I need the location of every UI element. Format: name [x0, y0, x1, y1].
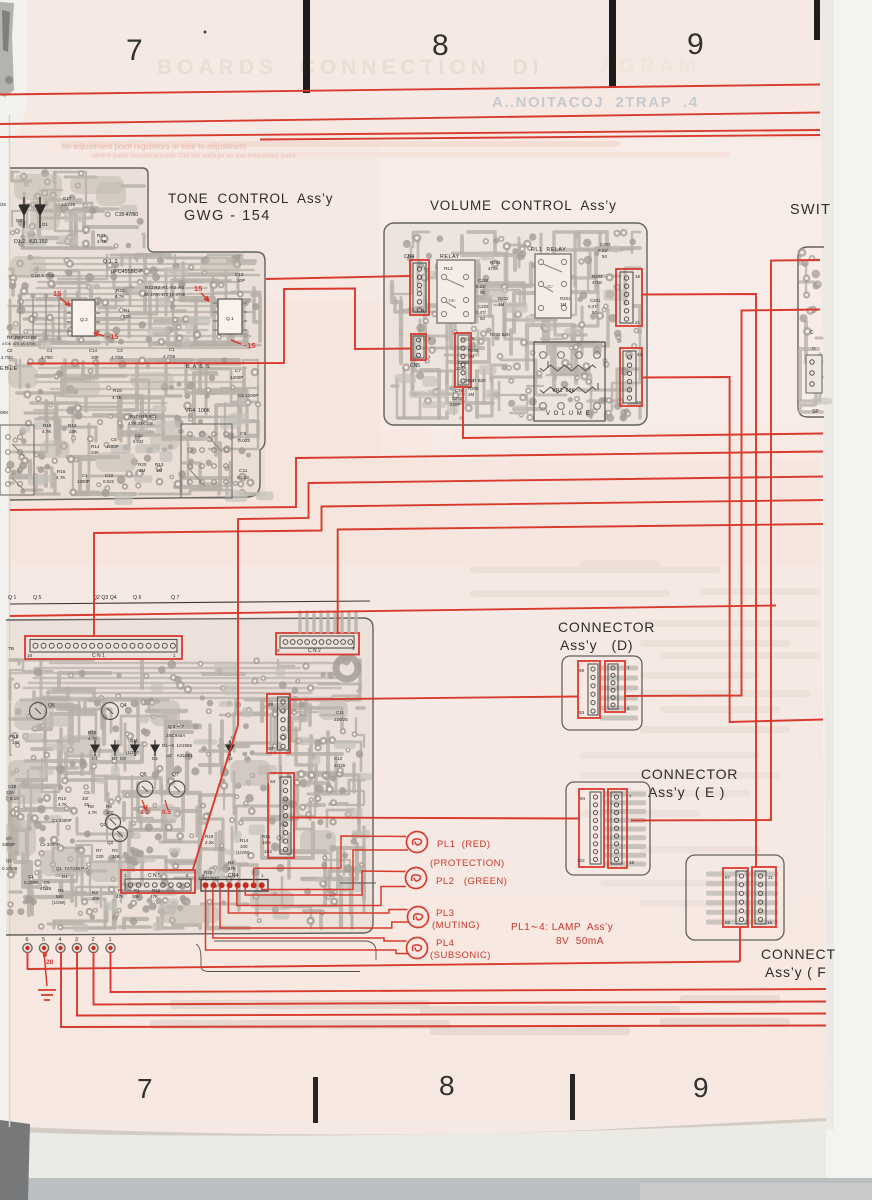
svg-text:680: 680 [56, 894, 64, 899]
svg-text:R14: R14 [91, 444, 100, 449]
svg-text:C: C [810, 330, 814, 336]
svg-text:D1,2. KZL150: D1,2. KZL150 [14, 239, 48, 245]
faint ghost paragraph lines [470, 566, 720, 573]
volume control board outline [384, 223, 647, 425]
svg-text:0.47/: 0.47/ [588, 304, 599, 309]
svg-text:22/25: 22/25 [334, 763, 346, 768]
lower board interior tint [6, 618, 373, 935]
svg-text:18: 18 [27, 653, 33, 658]
svg-text:CN4: CN4 [404, 254, 414, 260]
red ground symbol [44, 952, 47, 986]
svg-text:R33 R3 R1 R3 R5: R33 R3 R1 R3 R5 [145, 285, 185, 290]
PL4 wire a (CN4 pin2) [213, 887, 407, 941]
wire F-net: volume 16-21 to connector F right strip [641, 294, 756, 867]
svg-text:R18: R18 [43, 423, 52, 428]
svg-text:R206: R206 [468, 348, 479, 353]
svg-text:33/: 33/ [82, 796, 89, 801]
svg-text:1200P: 1200P [230, 375, 243, 380]
svg-text:(1/2W): (1/2W) [236, 850, 250, 855]
svg-text:C5: C5 [84, 790, 90, 795]
svg-text:0.22/: 0.22/ [476, 284, 487, 289]
svg-text:C1: C1 [169, 347, 175, 352]
svg-text:4.7K: 4.7K [88, 810, 97, 815]
svg-text:BOARDS CONNECTION DI: BOARDS CONNECTION DI [157, 56, 544, 79]
svg-text:21: 21 [768, 875, 774, 880]
volume board traces [504, 305, 524, 336]
bottom line from pad1 [111, 952, 827, 992]
svg-text:15: 15 [194, 284, 202, 293]
connector F left strip 87-82 [723, 868, 748, 927]
connector F rung bars right [744, 872, 778, 877]
switch board connector [806, 355, 822, 393]
svg-text:(MUTING): (MUTING) [432, 920, 480, 931]
svg-text:16: 16 [767, 920, 773, 925]
svg-text:C206: C206 [458, 360, 469, 365]
top red line 3 [0, 130, 820, 137]
svg-text:D1∼6 1S1555: D1∼6 1S1555 [162, 743, 193, 748]
svg-text:1M: 1M [139, 468, 146, 473]
svg-text:C11: C11 [239, 468, 248, 474]
svg-text:VOLUME CONTROL Ass’y: VOLUME CONTROL Ass’y [430, 198, 617, 213]
connector D rung bars [600, 666, 638, 671]
top tick mark center [609, 0, 616, 87]
diode row D4-D2 [91, 740, 99, 756]
svg-text:4: 4 [59, 937, 62, 943]
lamp PL4 [407, 938, 428, 959]
svg-text:C14: C14 [89, 348, 98, 353]
svg-text:88: 88 [579, 668, 585, 673]
connector D left strip 88-93 [578, 661, 600, 718]
connector strip 88-93 [267, 694, 290, 753]
svg-text:C202: C202 [478, 304, 489, 309]
svg-text:Q3: Q3 [100, 822, 107, 827]
svg-text:R20: R20 [138, 462, 147, 467]
svg-text:C204: C204 [478, 278, 489, 283]
svg-text:100/25: 100/25 [61, 202, 75, 207]
connector D board outline [562, 656, 642, 730]
tone board traces upper [53, 172, 56, 183]
svg-text:PL2 (GREEN): PL2 (GREEN) [436, 876, 507, 887]
svg-text:R15: R15 [262, 834, 271, 839]
wire 94-102 strip to connector E [290, 818, 579, 819]
svg-text:R15: R15 [113, 388, 122, 394]
svg-text:470K 470 1K 470K: 470K 470 1K 470K [2, 341, 36, 346]
wire B: CN5 diagonal up to mid bus [193, 477, 823, 870]
svg-text:0.022: 0.022 [103, 479, 115, 484]
svg-text:4.7K: 4.7K [56, 475, 66, 480]
gray finger traces above CN2 [298, 612, 301, 632]
svg-text:R4: R4 [228, 860, 234, 865]
connector F right strip 21-16 [752, 867, 776, 927]
svg-text:RELAY: RELAY [440, 254, 460, 260]
left paper edge shadow [9, 115, 11, 1127]
svg-text:3: 3 [75, 937, 78, 943]
svg-text:V O L U M E: V O L U M E [546, 411, 590, 417]
PL1 wire a (CN4 pin7 up) [254, 836, 407, 884]
svg-text:4.7/50: 4.7/50 [41, 355, 53, 360]
svg-text:4.7K: 4.7K [58, 802, 67, 807]
svg-text:7: 7 [137, 1073, 153, 1104]
svg-text:D7 D9: D7 D9 [112, 756, 126, 761]
svg-text:(1/2W): (1/2W) [52, 900, 66, 905]
top red line 4 (right half) [260, 135, 820, 140]
diode D2 [19, 197, 29, 228]
svg-text:R19: R19 [205, 834, 214, 839]
svg-text:12K: 12K [112, 854, 120, 859]
svg-text:D1: D1 [42, 222, 48, 227]
svg-text:47K: 47K [228, 866, 236, 871]
svg-text:Cx 3300P: Cx 3300P [40, 842, 60, 847]
svg-text:CONNECT: CONNECT [761, 946, 836, 962]
svg-text:VR4 100K: VR4 100K [185, 408, 211, 414]
svg-text:R202: R202 [498, 296, 509, 301]
svg-text:GWG - 154: GWG - 154 [184, 208, 271, 224]
svg-text:∕DE∕: ∕DE∕ [447, 298, 457, 303]
faint red bleed text rows under top lines [60, 141, 620, 147]
svg-text:220P: 220P [456, 366, 466, 371]
large gray blobs lower board [14, 700, 54, 730]
svg-text:9: 9 [693, 1072, 709, 1103]
svg-text:0.022: 0.022 [133, 439, 144, 444]
svg-text:10P: 10P [237, 278, 245, 283]
svg-text:C1: C1 [28, 874, 34, 879]
scanner background left edge [0, 0, 27, 1200]
svg-text:47/25: 47/25 [40, 886, 52, 891]
svg-text:1: 1 [627, 665, 630, 670]
svg-text:R201: R201 [560, 296, 571, 301]
svg-text:Q4: Q4 [120, 703, 127, 709]
svg-text:9: 9 [687, 28, 704, 61]
svg-text:2: 2 [92, 937, 95, 943]
svg-text:R12: R12 [68, 423, 77, 428]
svg-text:94: 94 [580, 796, 586, 801]
svg-text:RL1 RELAY: RL1 RELAY [531, 247, 566, 253]
svg-text:93: 93 [579, 710, 585, 715]
svg-text:470K: 470K [592, 280, 602, 285]
tone board interior tint [10, 168, 265, 500]
svg-text:220: 220 [123, 314, 131, 319]
svg-text:C4: C4 [82, 473, 88, 478]
svg-text:R3: R3 [112, 848, 118, 853]
svg-text:100: 100 [130, 744, 138, 749]
svg-text:A..NOITACOJ 2TRAP .4: A..NOITACOJ 2TRAP .4 [492, 94, 699, 111]
svg-text:Q 1: Q 1 [8, 595, 16, 601]
svg-text:R11: R11 [130, 738, 138, 743]
svg-text:102: 102 [264, 849, 272, 855]
PL2 wire b (CN4 pin5) [237, 887, 406, 906]
svg-text:100: 100 [240, 844, 248, 849]
svg-text:1: 1 [109, 937, 112, 943]
svg-text:4.7/50: 4.7/50 [163, 354, 176, 359]
svg-text:Ass’y ( F: Ass’y ( F [765, 964, 827, 980]
wire tone board to volume CN4 [266, 276, 410, 279]
svg-text:(PROTECTION): (PROTECTION) [430, 858, 505, 869]
tone board horizontal bus traces [28, 257, 243, 259]
svg-text:220/: 220/ [6, 790, 16, 795]
svg-text:220P: 220P [450, 402, 460, 407]
svg-text:4.7K: 4.7K [115, 294, 125, 299]
volume board interior tint [384, 223, 647, 425]
svg-text:C201: C201 [590, 298, 601, 303]
svg-text:28: 28 [46, 959, 54, 966]
svg-text:C7: C7 [235, 368, 241, 373]
svg-text:C10: C10 [8, 784, 17, 789]
tone board traces lower [111, 360, 137, 410]
lower board bus traces [50, 662, 343, 664]
svg-text:2.2K: 2.2K [205, 840, 214, 845]
svg-text:100: 100 [106, 810, 114, 815]
svg-text:R13: R13 [155, 462, 164, 467]
bottom line from pad2 [94, 952, 827, 1005]
svg-text:5: 5 [42, 937, 45, 943]
svg-text:SP: SP [812, 409, 819, 415]
svg-text:C205: C205 [452, 396, 463, 401]
svg-text:7: 7 [126, 34, 143, 67]
PL2 wire a (CN4 pin6) [245, 871, 405, 895]
svg-text:D1: D1 [62, 874, 68, 879]
svg-text:C9: C9 [240, 431, 246, 437]
wire V: volume CN6 down and right [463, 388, 823, 438]
svg-text:3300P: 3300P [2, 842, 15, 847]
svg-text:220: 220 [96, 854, 104, 859]
bottom tick mark left [313, 1077, 318, 1123]
svg-text:D4: D4 [92, 756, 98, 761]
svg-text:C16 4.7/50: C16 4.7/50 [31, 273, 55, 279]
CN1 connector [25, 636, 182, 659]
svg-text:21: 21 [635, 320, 641, 325]
svg-text:R22: R22 [204, 870, 213, 875]
relay RL2 [437, 260, 475, 323]
wire C2: right edge to CN2 [338, 524, 823, 634]
wire E-net: volume 43-48 right and down [643, 377, 823, 722]
svg-text:1M: 1M [156, 468, 163, 473]
svg-text:15: 15 [629, 860, 635, 865]
wire A: left edge to right edge via tone board bottom [10, 452, 823, 511]
svg-text:C12: C12 [334, 756, 343, 761]
transistors Q5 Q4 Q6 Q7 etc [30, 703, 47, 720]
svg-text:4.7K 24K 24K: 4.7K 24K 24K [128, 421, 154, 426]
via donut [336, 657, 358, 679]
svg-text:10%: 10% [262, 840, 271, 845]
CN4 connector (lower board) with red pins [201, 880, 268, 892]
svg-text:8: 8 [439, 1070, 455, 1101]
svg-text:50: 50 [480, 316, 485, 321]
svg-text:1: 1 [173, 653, 176, 658]
svg-text:/25: /25 [0, 202, 6, 207]
top tick mark left [303, 0, 310, 93]
svg-text:R21: R21 [97, 233, 106, 239]
svg-text:1M: 1M [468, 392, 474, 397]
svg-text:–15: –15 [243, 341, 256, 350]
svg-text:SWIT: SWIT [790, 202, 831, 218]
svg-text:PL3: PL3 [436, 908, 454, 919]
CN6 connector (volume) [455, 333, 471, 387]
CN5 connector (volume) [411, 334, 426, 360]
svg-text:C5 1200P: C5 1200P [238, 393, 258, 398]
scanner background right of paper edge [680, 0, 872, 1200]
svg-text:Qz: Qz [6, 858, 13, 863]
svg-text:6 10: 6 10 [10, 796, 19, 801]
svg-text:0.022: 0.022 [238, 438, 250, 444]
svg-text:R12: R12 [58, 796, 67, 801]
svg-text:3K 470K 470 1K 470K: 3K 470K 470 1K 470K [144, 292, 186, 297]
svg-text:C3: C3 [117, 348, 123, 353]
volume connector 43-48 [620, 348, 642, 406]
top tick mark right (paper edge) [814, 0, 820, 40]
svg-text:where parts should provide OM: where parts should provide OM list volta… [91, 153, 296, 160]
svg-text:Q.1: Q.1 [226, 316, 234, 322]
terminal pads 6..1 [23, 943, 32, 952]
svg-text:220/25: 220/25 [334, 717, 348, 722]
svg-text:R8: R8 [88, 804, 94, 809]
tone control board GWG-154 outline [10, 168, 265, 500]
svg-text:88: 88 [268, 702, 274, 708]
svg-text:470K: 470K [488, 266, 498, 271]
svg-text:C4: C4 [47, 348, 53, 353]
svg-text:Q1 TA7318 P-A: Q1 TA7318 P-A [56, 866, 89, 871]
svg-text:Q.2: Q.2 [80, 317, 88, 323]
lamp PL2 [406, 868, 427, 889]
svg-text:16: 16 [635, 274, 641, 279]
bass pot VR4 box [181, 424, 232, 498]
svg-text:R22: R22 [116, 288, 125, 293]
svg-text:Q 6: Q 6 [133, 595, 141, 601]
svg-text:10P: 10P [91, 355, 99, 360]
svg-text:50: 50 [480, 290, 485, 295]
svg-text:Q2: Q2 [107, 840, 114, 845]
svg-text:C N 1: C N 1 [92, 653, 105, 659]
bottom line from pad6 via PL4 to connector F [28, 952, 741, 969]
svg-text:2SC945A: 2SC945A [166, 733, 185, 738]
wire C: CN1 riser to right edge [94, 500, 823, 636]
svg-text:Q6: Q6 [140, 772, 147, 778]
top red line 1 [0, 85, 820, 95]
svg-text:R15: R15 [10, 734, 19, 739]
bottom line from pad3 [77, 952, 826, 1016]
svg-text:PL1 (RED): PL1 (RED) [437, 839, 491, 850]
svg-text:102: 102 [577, 858, 585, 863]
switch board outline [798, 247, 824, 417]
svg-text:7: 7 [629, 794, 632, 799]
svg-text:Ass’y ( E ): Ass’y ( E ) [648, 784, 725, 800]
svg-text:Q7: Q7 [172, 772, 179, 778]
svg-text:R2: R2 [92, 890, 98, 895]
svg-text:TONE CONTROL Ass’y: TONE CONTROL Ass’y [168, 191, 333, 206]
wire SW-net: switch board down to connector E [631, 260, 820, 821]
svg-text:1 3: 1 3 [140, 809, 149, 816]
svg-text:24K: 24K [69, 429, 78, 434]
svg-text:8: 8 [432, 29, 449, 62]
svg-text:O: O [812, 346, 816, 351]
svg-text:R16: R16 [57, 469, 66, 474]
svg-text:C6: C6 [111, 437, 117, 442]
svg-text:R17 R19 R11: R17 R19 R11 [130, 414, 157, 419]
svg-text:24K: 24K [91, 450, 100, 455]
svg-text:R207 B2K: R207 B2K [466, 378, 486, 383]
svg-text:D2: D2 [16, 218, 22, 223]
svg-text:no adjustment point regulators: no adjustment point regulators or else t… [62, 142, 247, 151]
connector E board outline [566, 782, 650, 875]
svg-text:6: 6 [627, 706, 630, 711]
IC Q2 (uPC4558) [72, 300, 95, 336]
svg-text:0.47/: 0.47/ [476, 310, 487, 315]
svg-text:R10: R10 [88, 730, 97, 735]
svg-text:43: 43 [637, 352, 643, 357]
svg-text:C17: C17 [63, 196, 72, 201]
svg-text:6: 6 [26, 937, 29, 943]
connector strip 94-102 [268, 773, 294, 858]
svg-text:(SUBSONIC): (SUBSONIC) [430, 950, 491, 961]
svg-text:4.7K: 4.7K [112, 395, 123, 401]
svg-text:30K: 30K [132, 894, 140, 899]
svg-text:R9: R9 [106, 804, 112, 809]
svg-text:C2: C2 [7, 348, 13, 353]
svg-text:C11: C11 [336, 710, 344, 715]
bottom line from pad4 [61, 952, 826, 1027]
svg-text:Q 2 ∼ 7: Q 2 ∼ 7 [168, 724, 185, 729]
svg-text:8V 50mA: 8V 50mA [556, 936, 604, 947]
svg-text:1M: 1M [468, 354, 474, 359]
svg-text:PL1∼4: LAMP Ass’y: PL1∼4: LAMP Ass’y [511, 922, 613, 933]
wire tone board to volume CN5 [27, 289, 411, 364]
resistor columns upper left [19, 296, 21, 338]
treble pot (left edge, cut) [0, 425, 34, 495]
lamp PL1 [407, 832, 428, 853]
svg-text:C203: C203 [600, 242, 611, 247]
svg-text:0.1/50B: 0.1/50B [2, 866, 18, 871]
svg-text:RL2: RL2 [444, 266, 453, 272]
svg-text:0.150B: 0.150B [24, 880, 38, 885]
svg-text:PL4: PL4 [436, 938, 454, 949]
lamp PL3 [408, 907, 429, 928]
svg-text:47K: 47K [116, 894, 124, 899]
svg-text:Q 5: Q 5 [33, 595, 41, 601]
connector D right strip 1-6 [605, 661, 625, 712]
svg-text:C5: C5 [44, 880, 50, 885]
svg-text:–15: –15 [106, 332, 119, 341]
svg-text:R204: R204 [490, 260, 501, 265]
PL1 wire b (CN4 pin8) [262, 850, 408, 890]
svg-text:0.22/: 0.22/ [598, 248, 609, 253]
svg-text:4.7K: 4.7K [88, 736, 97, 741]
relay RL1 [535, 254, 571, 318]
svg-text:4.7K: 4.7K [42, 429, 52, 434]
svg-text:R14: R14 [240, 838, 249, 843]
svg-text:180: 180 [12, 740, 20, 745]
CN2 connector [276, 633, 359, 655]
long red line to x776 [10, 606, 776, 617]
connector F rung bars left [706, 872, 740, 877]
svg-text:B A S S: B A S S [186, 364, 211, 370]
svg-text:VR1 68K: VR1 68K [552, 388, 575, 394]
svg-text:CN5: CN5 [410, 363, 420, 369]
svg-text:TB: TB [8, 646, 14, 652]
wire D-net: switch board to connector D [625, 310, 820, 697]
svg-text:Q 7: Q 7 [171, 595, 179, 601]
svg-text:93: 93 [268, 746, 274, 752]
svg-text:1: 1 [352, 646, 355, 651]
PL3 wire a (CN4 pin4) [228, 887, 407, 913]
top red line 2 [0, 113, 820, 125]
connector E right strip 7-15 [608, 789, 627, 868]
svg-text:C N 2: C N 2 [308, 648, 321, 654]
svg-text:R7: R7 [96, 848, 102, 853]
CN4 connector (volume) [410, 260, 429, 315]
svg-text:C13: C13 [235, 272, 244, 277]
svg-text:15: 15 [53, 289, 61, 298]
svg-text:00K: 00K [0, 410, 9, 416]
svg-text:R4 R8 R16 R6: R4 R8 R16 R6 [7, 335, 37, 340]
